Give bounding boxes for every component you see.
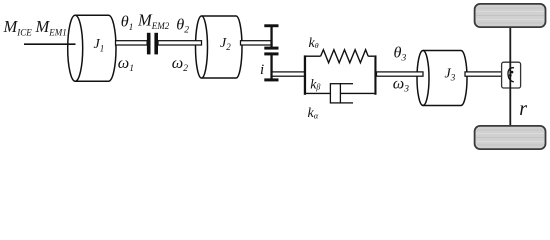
damper cylinder box [330,84,340,103]
top branch lead line [306,55,321,57]
shaft J1 to coupling [116,41,148,45]
shaft J3 to final drive [465,72,503,76]
svg-text:θ2: θ2 [176,16,189,36]
spring block right bar [374,55,376,94]
bottom wheel [475,126,546,149]
svg-text:θ1: θ1 [121,13,134,33]
svg-text:r: r [519,98,527,120]
svg-text:kβ: kβ [310,77,320,92]
svg-text:MEM1: MEM1 [35,17,67,37]
svg-text:ω3: ω3 [393,74,409,94]
svg-text:θ3: θ3 [394,43,407,63]
input shaft line [24,43,76,45]
coupling plate 1 [147,33,151,55]
svg-text:i: i [260,62,264,78]
svg-text:MICE: MICE [3,17,33,37]
gear upper bottom flange [264,47,278,50]
damper bottom wall [340,102,353,104]
top branch tail line [368,55,374,57]
bottom branch line [306,92,374,94]
inertia J3 cylinder body [417,51,467,106]
gear lower stem [270,54,272,80]
shaft coupling to J2 [158,41,202,45]
svg-text:kα: kα [308,106,319,121]
top wheel [475,4,546,27]
shaft gear to spring block [272,72,305,76]
axle line [509,27,511,126]
inertia J1 cylinder body [68,15,116,81]
final drive gear symbol [508,68,514,82]
shaft spring block to J3 [377,72,424,76]
final drive box [502,62,521,88]
damper top wall [340,83,353,85]
inertia J2 cylinder body [196,16,243,78]
gear upper stem [270,26,272,49]
svg-text:ω1: ω1 [118,54,134,74]
gear lower bottom flange [264,78,278,81]
spring block left bar [304,55,306,94]
svg-text:ω2: ω2 [172,54,188,74]
spring k_theta zigzag [321,50,369,63]
coupling plate 2 [154,33,158,55]
svg-text:kθ: kθ [309,36,319,51]
shaft J2 to gear [241,41,272,45]
gear lower top flange [264,52,278,55]
svg-text:MEM2: MEM2 [137,10,170,30]
gear upper top flange [264,24,278,27]
